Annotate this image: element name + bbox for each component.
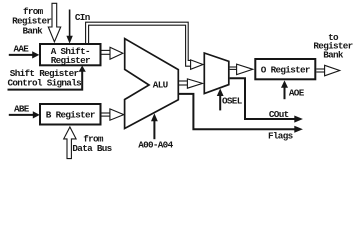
- svg-text:Data Bus: Data Bus: [72, 143, 112, 154]
- wire bus A Shift-Register output to ALU upper input: [102, 50, 111, 54]
- wire A00-A04 arrow into ALU bottom: [151, 113, 158, 139]
- svg-text:Register: Register: [51, 55, 90, 66]
- wire bus mux output to O Register: [230, 67, 237, 69]
- svg-text:B Register: B Register: [46, 109, 95, 120]
- wire COut from mux right edge: [230, 78, 303, 122]
- wire hollow arrow from Data Bus into B Register bottom: [64, 127, 76, 159]
- wire ABE arrow into B Register: [9, 111, 40, 118]
- svg-text:O Register: O Register: [261, 65, 310, 76]
- node to Register Bank (label): [313, 32, 352, 61]
- svg-text:CIn: CIn: [75, 12, 91, 23]
- wire OSEL arrow into mux bottom: [217, 88, 224, 110]
- wire bus from A Shift-Register top wrapping right and down to OSEL mux upper input: [86, 22, 192, 66]
- wire bus B Register output to ALU lower input: [102, 113, 111, 116]
- op-amp ALU: [125, 39, 179, 129]
- wire bus ALU output to OSEL mux lower input: [178, 81, 188, 85]
- wire CIn arrow into A Shift-Register top: [66, 10, 72, 44]
- mux OSEL: [204, 53, 229, 94]
- svg-text:Control Signals: Control Signals: [8, 77, 83, 88]
- wire hollow arrow from Register Bank into A Shift-Register top: [48, 3, 60, 42]
- register A Shift-Register: [40, 44, 101, 66]
- wire AAE arrow into A Shift-Register: [9, 51, 40, 58]
- node from Register Bank (label): [12, 6, 51, 37]
- node Shift Register Control Signals (label): [8, 68, 83, 89]
- node from Data Bus (label): [72, 134, 112, 154]
- register B Register: [40, 104, 101, 125]
- svg-text:A00-A04: A00-A04: [138, 140, 173, 151]
- svg-text:OSEL: OSEL: [222, 96, 243, 107]
- wire shift register control signals into A Shift-Register bottom: [8, 66, 86, 90]
- svg-text:ABE: ABE: [14, 104, 30, 115]
- wire AOE arrow into O Register bottom: [281, 80, 288, 99]
- register O Register: [255, 59, 315, 79]
- wire open arrowhead into mux upper input: [191, 60, 203, 69]
- wire Flags from ALU right edge: [178, 94, 303, 133]
- svg-text:AAE: AAE: [14, 44, 30, 55]
- wire bus O Register output to Register Bank: [316, 69, 325, 72]
- svg-text:Flags: Flags: [268, 130, 294, 141]
- svg-text:AOE: AOE: [289, 88, 305, 99]
- svg-text:ALU: ALU: [153, 80, 168, 91]
- svg-text:COut: COut: [269, 109, 289, 120]
- svg-text:Bank: Bank: [323, 49, 344, 60]
- svg-text:Bank: Bank: [22, 26, 43, 37]
